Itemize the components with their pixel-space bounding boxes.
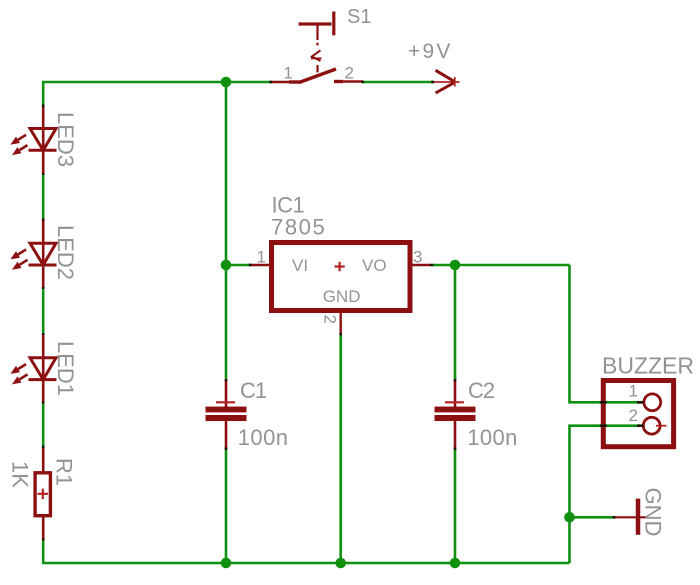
svg-text:BUZZER: BUZZER [602, 352, 694, 378]
resistor R1 [35, 447, 50, 540]
wire left bus segments [42, 175, 45, 564]
svg-text:1K: 1K [8, 461, 33, 488]
svg-text:2: 2 [321, 315, 340, 324]
svg-text:GND: GND [323, 287, 361, 306]
svg-text:GND: GND [641, 488, 666, 537]
wire to buzzer pin1 [570, 265, 644, 402]
wire bottom bus [42, 562, 570, 565]
LED1 [10, 334, 56, 403]
svg-text:2: 2 [345, 64, 354, 83]
wire vertical C1 branch [225, 82, 228, 379]
wire vertical C1 branch lower [225, 450, 228, 563]
svg-text:R1: R1 [51, 458, 76, 486]
svg-text:100n: 100n [467, 425, 518, 450]
svg-text:3: 3 [413, 248, 422, 267]
svg-text:VO: VO [362, 256, 387, 275]
wire to GND symbol [570, 516, 614, 519]
capacitor C2 [435, 380, 476, 450]
BUZZER connector pads [643, 394, 666, 434]
svg-text:VI: VI [292, 256, 308, 275]
ground GND symbol [615, 499, 647, 535]
svg-text:C2: C2 [468, 378, 495, 403]
svg-text:S1: S1 [347, 6, 371, 28]
svg-text:7805: 7805 [271, 215, 326, 240]
op-amp / regulator IC1 box [250, 243, 431, 335]
LED2 [10, 220, 56, 289]
wire vertical C2 branch lower [454, 450, 457, 563]
svg-text:1: 1 [257, 248, 266, 267]
wire to buzzer pin2 [570, 426, 641, 563]
svg-text:100n: 100n [238, 425, 289, 450]
wire IC1 pin2 (GND) vertical [339, 336, 342, 564]
svg-text:C1: C1 [240, 378, 267, 403]
wire switch output to +9V [364, 81, 434, 84]
wire top bus [43, 82, 271, 105]
+9V supply symbol [432, 70, 460, 93]
wire IC1 pin1 net [226, 264, 250, 267]
svg-text:2: 2 [629, 406, 638, 425]
wire IC1 pin3 net [433, 264, 570, 267]
pin endpoint ticks (dark) [43, 82, 643, 541]
LED3 [10, 105, 56, 174]
wire vertical C2 branch [454, 265, 457, 379]
switch S1 [271, 12, 363, 83]
svg-text:LED1: LED1 [53, 341, 78, 396]
svg-text:+9V: +9V [408, 40, 453, 63]
svg-text:1: 1 [629, 382, 638, 401]
capacitor C1 [206, 380, 247, 450]
svg-text:1: 1 [283, 64, 292, 83]
svg-text:LED3: LED3 [53, 112, 78, 167]
connector BUZZER box (under wires) [603, 381, 673, 447]
svg-text:LED2: LED2 [53, 225, 78, 280]
